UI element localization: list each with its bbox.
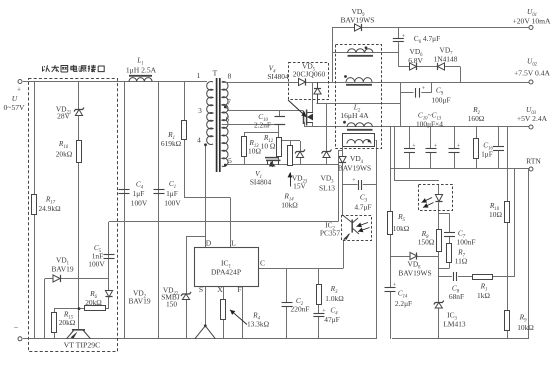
svg-text:6: 6 [226, 115, 230, 124]
svg-text:2.2μF: 2.2μF [395, 299, 412, 308]
svg-text:−: − [14, 323, 19, 332]
svg-text:20CJQ060: 20CJQ060 [293, 70, 326, 79]
svg-text:220nF: 220nF [291, 305, 310, 314]
svg-text:SI4804: SI4804 [267, 72, 289, 81]
svg-text:U: U [12, 94, 18, 103]
svg-text:2.2nF: 2.2nF [254, 121, 271, 130]
svg-text:619kΩ: 619kΩ [161, 139, 182, 148]
svg-text:100μF: 100μF [431, 96, 450, 105]
svg-text:10Ω: 10Ω [248, 147, 261, 156]
svg-text:24.9kΩ: 24.9kΩ [38, 204, 61, 213]
svg-text:1μF: 1μF [166, 189, 178, 198]
svg-text:10Ω: 10Ω [489, 210, 502, 219]
svg-text:BAV19WS: BAV19WS [338, 164, 371, 173]
svg-text:SL13: SL13 [319, 184, 335, 193]
svg-text:BAV19WS: BAV19WS [398, 269, 431, 278]
svg-text:C: C [260, 259, 265, 268]
svg-text:100V: 100V [88, 260, 105, 269]
svg-text:DPA424P: DPA424P [211, 268, 241, 277]
svg-text:15V: 15V [293, 182, 306, 191]
svg-text:+5V 2.4A: +5V 2.4A [517, 114, 548, 123]
svg-text:C6 4.7μF: C6 4.7μF [414, 34, 440, 45]
svg-text:13.3kΩ: 13.3kΩ [247, 320, 270, 329]
svg-text:T: T [213, 69, 218, 78]
svg-text:6.8V: 6.8V [408, 56, 423, 65]
svg-text:100μF×4: 100μF×4 [416, 120, 443, 129]
svg-text:BAV19: BAV19 [51, 265, 73, 274]
svg-text:3: 3 [198, 106, 202, 115]
svg-text:0~57V: 0~57V [4, 103, 25, 112]
svg-text:10kΩ: 10kΩ [281, 201, 298, 210]
svg-text:1.0kΩ: 1.0kΩ [325, 294, 344, 303]
svg-text:20kΩ: 20kΩ [59, 318, 76, 327]
svg-text:X: X [217, 285, 223, 294]
svg-text:16μH 4A: 16μH 4A [340, 111, 369, 120]
svg-text:4.7μF: 4.7μF [354, 203, 371, 212]
svg-text:160Ω: 160Ω [468, 114, 485, 123]
svg-text:10kΩ: 10kΩ [517, 323, 534, 332]
svg-text:20kΩ: 20kΩ [56, 150, 73, 159]
svg-text:10 Ω: 10 Ω [261, 142, 276, 151]
svg-text:11Ω: 11Ω [455, 257, 468, 266]
svg-text:RTN: RTN [526, 157, 541, 166]
svg-text:150: 150 [166, 300, 177, 309]
svg-text:LM413: LM413 [443, 320, 465, 329]
svg-text:28V: 28V [57, 112, 70, 121]
svg-text:5: 5 [228, 156, 232, 165]
svg-text:100V: 100V [164, 199, 181, 208]
svg-text:47μF: 47μF [324, 315, 339, 324]
svg-text:68nF: 68nF [449, 292, 464, 301]
svg-text:100nF: 100nF [457, 238, 476, 247]
svg-text:+: + [17, 85, 21, 94]
svg-text:20kΩ: 20kΩ [85, 298, 102, 307]
svg-text:PC357: PC357 [320, 229, 340, 238]
svg-text:1N4148: 1N4148 [434, 55, 458, 64]
svg-text:D: D [206, 239, 212, 248]
svg-text:1kΩ: 1kΩ [477, 291, 490, 300]
svg-text:7: 7 [227, 98, 231, 107]
svg-text:1μF: 1μF [481, 150, 493, 159]
svg-text:L: L [231, 239, 236, 248]
svg-text:1μH 2.5A: 1μH 2.5A [126, 66, 157, 75]
svg-text:10kΩ: 10kΩ [393, 224, 410, 233]
svg-text:100V: 100V [131, 199, 148, 208]
svg-text:BAV19: BAV19 [128, 297, 150, 306]
svg-text:S: S [199, 285, 203, 294]
svg-text:VT TIP29C: VT TIP29C [64, 341, 101, 350]
svg-text:1: 1 [197, 71, 201, 80]
svg-text:1μF: 1μF [133, 189, 145, 198]
svg-text:+20V 10mA: +20V 10mA [512, 17, 551, 26]
svg-text:BAV19WS: BAV19WS [340, 16, 374, 25]
svg-text:150Ω: 150Ω [418, 238, 435, 247]
svg-text:8: 8 [228, 72, 232, 81]
svg-text:+7.5V 0.4A: +7.5V 0.4A [514, 69, 551, 78]
svg-text:F: F [237, 285, 241, 294]
svg-text:SI4804: SI4804 [250, 178, 272, 187]
svg-text:4: 4 [197, 136, 201, 145]
